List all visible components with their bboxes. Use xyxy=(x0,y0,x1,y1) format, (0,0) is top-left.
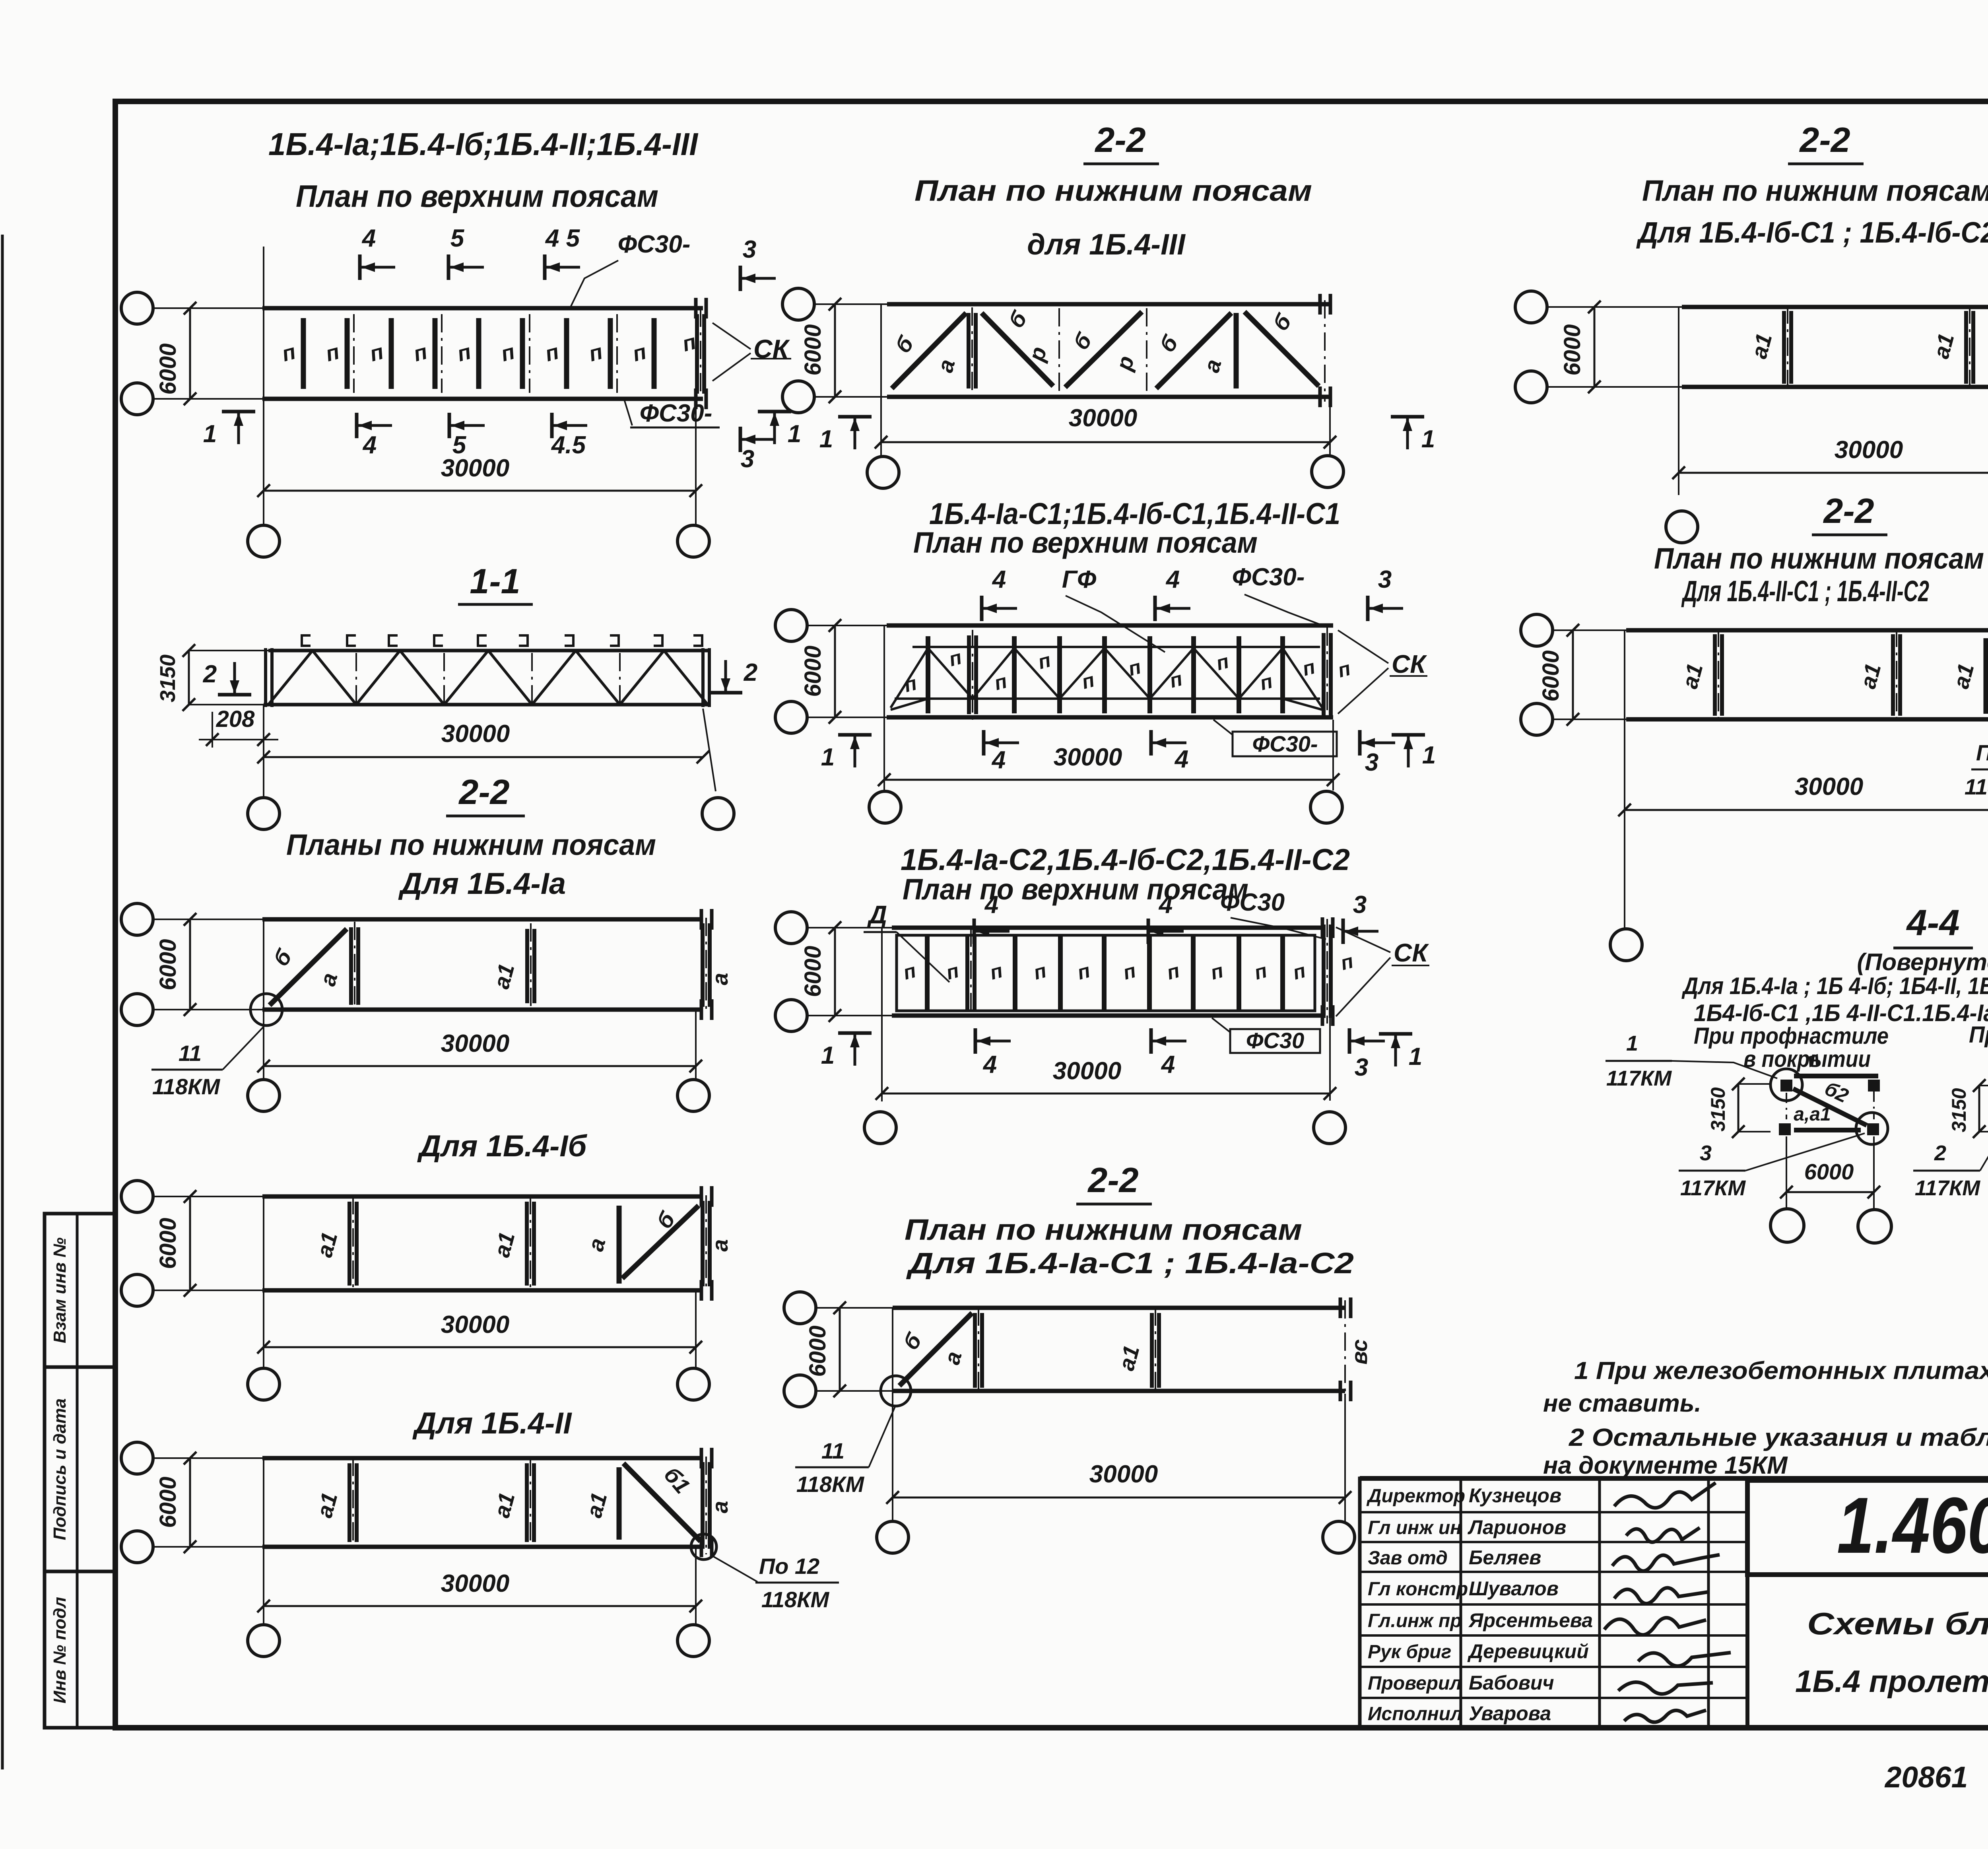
detail 4-4b dim 3150 xyxy=(1979,1085,1988,1086)
diagram A end ticks right xyxy=(694,298,698,319)
diagram C bars a xyxy=(349,927,353,1005)
svg-text:11: 11 xyxy=(179,1041,202,1066)
svg-text:3: 3 xyxy=(1355,1054,1368,1081)
diagram A dim 6000 xyxy=(189,308,191,399)
svg-text:1: 1 xyxy=(1421,425,1435,453)
scan edge artifact line xyxy=(1,235,4,1769)
svg-text:ФС30-: ФС30- xyxy=(640,400,712,427)
svg-text:Для 1Б.4-Iа-С1 ; 1Б.4-Iа-С2: Для 1Б.4-Iа-С1 ; 1Б.4-Iа-С2 xyxy=(906,1247,1354,1280)
diagram I chords xyxy=(893,1306,1345,1310)
diagram H outer chords xyxy=(892,926,1324,930)
detail 4-4a dashed axis left xyxy=(1786,1093,1787,1119)
diagram H slab bars xyxy=(925,935,930,1011)
svg-text:3: 3 xyxy=(741,445,754,473)
svg-text:Для 1Б.4-Iб: Для 1Б.4-Iб xyxy=(417,1129,588,1163)
diagram G top section marks xyxy=(980,596,984,621)
svg-text:117КМ: 117КМ xyxy=(1680,1176,1746,1200)
svg-text:208: 208 xyxy=(216,706,255,732)
svg-text:117КМ: 117КМ xyxy=(1915,1176,1980,1200)
svg-text:а: а xyxy=(707,1239,732,1251)
diagram I grid circles left xyxy=(784,1292,816,1324)
detail 4-4a purlin bar xyxy=(1794,1074,1878,1078)
svg-text:План по верхним поясам: План по верхним поясам xyxy=(296,179,658,214)
svg-text:30000: 30000 xyxy=(1054,744,1122,771)
svg-text:Бабович: Бабович xyxy=(1469,1672,1554,1694)
svg-text:6000: 6000 xyxy=(155,1476,181,1528)
svg-text:118КМ: 118КМ xyxy=(152,1074,221,1099)
svg-text:Для 1Б.4-Iб-С1 ; 1Б.4-Iб-С2: Для 1Б.4-Iб-С1 ; 1Б.4-Iб-С2 xyxy=(1636,216,1988,249)
diagram E brace b1 xyxy=(623,1463,701,1541)
detail 4-4a top-right square xyxy=(1868,1080,1880,1092)
diagram H top section marks xyxy=(973,919,976,944)
svg-text:117КМ: 117КМ xyxy=(1606,1066,1672,1090)
svg-text:1: 1 xyxy=(1409,1043,1422,1070)
svg-text:30000: 30000 xyxy=(1089,1461,1158,1488)
svg-text:не ставить.: не ставить. xyxy=(1543,1390,1701,1417)
svg-text:Для 1Б.4-II: Для 1Б.4-II xyxy=(412,1406,572,1440)
svg-text:2-2: 2-2 xyxy=(1823,491,1874,530)
svg-text:Для 1Б.4-Iа: Для 1Б.4-Iа xyxy=(398,867,566,901)
svg-text:Ярсентьева: Ярсентьева xyxy=(1468,1609,1593,1631)
section mark 2 right xyxy=(709,691,742,695)
diagram K bottom circles xyxy=(1610,929,1642,961)
diagram H slab inner rect xyxy=(897,935,1315,1011)
svg-text:4: 4 xyxy=(1174,746,1188,773)
dim 30000 of 1-1 xyxy=(264,756,703,758)
diagram K bar a1 #3 xyxy=(1984,638,1988,714)
diagram A grid circles left xyxy=(121,292,153,324)
diagram C frame xyxy=(121,903,153,935)
svg-text:ФС30: ФС30 xyxy=(1220,889,1285,916)
svg-text:3: 3 xyxy=(743,236,756,263)
svg-text:3150: 3150 xyxy=(1707,1087,1729,1131)
diagram F grid circles left xyxy=(782,288,814,320)
diagram J grid circles left xyxy=(1515,291,1547,323)
diagram A bottom chord xyxy=(262,397,703,401)
svg-text:Инв № подл: Инв № подл xyxy=(50,1597,70,1703)
svg-text:30000: 30000 xyxy=(441,454,509,482)
svg-text:План по нижним поясам: План по нижним поясам xyxy=(905,1213,1302,1246)
svg-text:4: 4 xyxy=(362,431,377,459)
svg-text:ГФ: ГФ xyxy=(1062,566,1097,593)
diagram C brace b xyxy=(270,929,347,1005)
diagram A section marks bottom xyxy=(355,413,359,438)
svg-text:30000: 30000 xyxy=(1835,436,1903,464)
diagram F section mark 1 right xyxy=(1391,415,1424,419)
svg-text:При ж б плитах: При ж б плитах xyxy=(1969,1022,1988,1048)
diagram F right end xyxy=(1324,300,1326,402)
svg-text:(Повернуто): (Повернуто) xyxy=(1857,949,1988,975)
svg-text:2-2: 2-2 xyxy=(1799,120,1850,159)
svg-text:3: 3 xyxy=(1365,749,1378,776)
svg-text:1-1: 1-1 xyxy=(470,561,520,601)
svg-text:Подпись и дата: Подпись и дата xyxy=(50,1398,70,1540)
diagram D frame xyxy=(121,1181,153,1212)
diagram H FS30 box xyxy=(1230,1029,1320,1053)
diagram G dim 6000 xyxy=(834,625,836,717)
svg-text:30000: 30000 xyxy=(1069,404,1137,432)
diagram H grid circles left xyxy=(775,912,807,944)
svg-text:6000: 6000 xyxy=(1559,324,1585,375)
diagram E frame xyxy=(121,1442,153,1474)
svg-text:1Б4-Iб-С1 ,1Б 4-II-С1.1Б.4-Iа-: 1Б4-Iб-С1 ,1Б 4-II-С1.1Б.4-Iа-С2,1Б 4-Iб… xyxy=(1694,1000,1988,1026)
svg-text:30000: 30000 xyxy=(441,1030,509,1057)
svg-text:вс: вс xyxy=(1347,1339,1372,1365)
svg-text:6000: 6000 xyxy=(800,946,826,997)
diagram G FS30 box xyxy=(1233,732,1337,756)
diagram A grid lines left xyxy=(154,307,262,309)
svg-text:118КМ: 118КМ xyxy=(761,1587,830,1612)
diagram E bars a1 #2 xyxy=(525,1463,529,1542)
detail 4-4a bottom squares and bar xyxy=(1779,1123,1791,1135)
svg-text:4: 4 xyxy=(1161,1051,1175,1078)
svg-text:1: 1 xyxy=(821,1042,835,1069)
diagram D right end bars xyxy=(701,1201,705,1286)
svg-text:Схемы блоков: Схемы блоков xyxy=(1807,1606,1988,1641)
diagram I bars a1 xyxy=(1150,1313,1154,1388)
svg-text:Для 1Б.4-Iа ; 1Б 4-Iб; 1Б4-II,: Для 1Б.4-Iа ; 1Б 4-Iб; 1Б4-II, 1Б 4-Iа-С… xyxy=(1681,973,1988,999)
svg-text:ФС30-: ФС30- xyxy=(1252,731,1318,756)
svg-text:3: 3 xyxy=(1378,566,1392,593)
svg-text:4: 4 xyxy=(992,566,1006,593)
diagram J bars a1 #2 xyxy=(1964,311,1968,384)
svg-text:30000: 30000 xyxy=(1795,773,1863,800)
diagram D bars a1 #1 xyxy=(348,1202,351,1286)
diagram A dim 30000 xyxy=(695,402,697,497)
diagram A section mark 1 bottom right xyxy=(758,410,791,414)
svg-text:3150: 3150 xyxy=(156,655,180,702)
svg-text:2: 2 xyxy=(1934,1141,1946,1165)
svg-text:1 При железобетонных плитах: 1 При железобетонных плитах в покрытии п… xyxy=(1574,1357,1988,1385)
diagram A top chord xyxy=(262,306,703,311)
diagram H right end bars xyxy=(1322,924,1326,1018)
diagram K bars a1 #2 xyxy=(1891,634,1895,716)
svg-text:1Б.4 пролетом 30м: 1Б.4 пролетом 30м xyxy=(1795,1664,1988,1699)
diagram I dim 30000 xyxy=(1344,1394,1346,1521)
svg-text:ФС30: ФС30 xyxy=(1246,1028,1304,1053)
svg-text:4 5: 4 5 xyxy=(545,225,580,252)
truss 1-1 zigzag diagonals xyxy=(268,651,313,705)
svg-text:3150: 3150 xyxy=(1948,1088,1970,1132)
diagram G grid circles left xyxy=(775,610,807,641)
diagram G bottom section marks xyxy=(982,730,986,756)
svg-text:6000: 6000 xyxy=(805,1325,831,1377)
truss 1-1 end posts xyxy=(264,648,267,707)
diagram K dim 6000 xyxy=(1572,630,1574,719)
svg-text:План по нижним поясам: План по нижним поясам xyxy=(1642,174,1988,207)
title block outer xyxy=(1360,1476,1988,1481)
diagram A bottom grid circles xyxy=(263,497,264,525)
signature table rows xyxy=(1360,1511,1747,1513)
svg-text:1Б.4-Iа;1Б.4-Iб;1Б.4-II;1Б.4-I: 1Б.4-Iа;1Б.4-Iб;1Б.4-II;1Б.4-III xyxy=(268,126,699,162)
diagram I bars a xyxy=(973,1313,977,1388)
truss 1-1 dash-dot verticals xyxy=(355,653,357,703)
svg-text:Деревицкий: Деревицкий xyxy=(1467,1640,1589,1663)
svg-text:Взам инв №: Взам инв № xyxy=(50,1237,70,1343)
diagram G bottom circles xyxy=(883,780,885,790)
svg-text:1: 1 xyxy=(1422,742,1436,769)
diagram G dim 30000 xyxy=(1332,720,1334,787)
svg-text:20861: 20861 xyxy=(1884,1760,1968,1794)
diagram D brace b xyxy=(622,1206,699,1278)
diagram E bars a1 #1 xyxy=(348,1463,351,1542)
svg-text:Гл инж ин: Гл инж ин xyxy=(1368,1517,1462,1538)
document number box xyxy=(1747,1480,1988,1575)
svg-text:СК: СК xyxy=(1392,650,1427,678)
svg-text:118КМ: 118КМ xyxy=(796,1472,865,1497)
svg-text:а: а xyxy=(707,973,732,985)
detail 4-4a dim 3150 xyxy=(1738,1083,1771,1085)
diagram A right end bars xyxy=(695,314,699,394)
svg-text:1: 1 xyxy=(1626,1031,1638,1055)
diagram J chords xyxy=(1682,305,1988,309)
svg-text:2 Остальные указания и таб: 2 Остальные указания и таблица элементов… xyxy=(1569,1424,1988,1451)
diagram G posts xyxy=(926,636,930,713)
signature table columns xyxy=(1460,1478,1462,1728)
svg-text:6000: 6000 xyxy=(800,324,826,375)
svg-text:6000: 6000 xyxy=(155,1218,181,1269)
svg-text:2: 2 xyxy=(744,659,757,686)
svg-text:6000: 6000 xyxy=(1804,1159,1854,1184)
diagram H dim 6000 xyxy=(834,928,836,1016)
diagram K bars a1 #1 xyxy=(1713,634,1717,716)
svg-text:Исполнил: Исполнил xyxy=(1368,1703,1462,1725)
svg-text:30000: 30000 xyxy=(441,1570,509,1597)
diagram F chords xyxy=(887,302,1330,307)
diagram I right end xyxy=(1344,1300,1346,1399)
svg-text:а,а1: а,а1 xyxy=(1794,1104,1831,1125)
diagram J bottom circles xyxy=(1666,511,1698,543)
diagram K chords xyxy=(1626,628,1988,633)
diagram F dim 6000 xyxy=(834,304,836,397)
svg-text:4: 4 xyxy=(361,225,376,252)
svg-text:6000: 6000 xyxy=(800,645,826,697)
svg-text:а: а xyxy=(707,1501,732,1513)
diagram C node circle left xyxy=(250,994,282,1025)
svg-text:6000: 6000 xyxy=(1538,650,1564,701)
diagram A section marks top xyxy=(358,254,362,280)
svg-text:2-2: 2-2 xyxy=(1094,120,1145,159)
svg-text:4-4: 4-4 xyxy=(1906,903,1960,943)
diagram A section mark 3 bottom right xyxy=(739,427,742,452)
diagram I bottom circles xyxy=(877,1521,909,1553)
svg-text:Зав отд: Зав отд xyxy=(1368,1548,1448,1569)
svg-text:При профнастиле: При профнастиле xyxy=(1694,1023,1889,1049)
svg-text:1Б.4-Iа-С2,1Б.4-Iб-С2,1Б.4-II-: 1Б.4-Iа-С2,1Б.4-Iб-С2,1Б.4-II-С2 xyxy=(901,843,1350,877)
detail 4-4a brace b2 xyxy=(1793,1089,1867,1125)
diagram A column axis left xyxy=(263,247,264,497)
svg-text:Шувалов: Шувалов xyxy=(1469,1577,1559,1600)
svg-text:для 1Б.4-III: для 1Б.4-III xyxy=(1027,228,1186,261)
svg-text:План по верхним поясам: План по верхним поясам xyxy=(913,526,1258,559)
svg-text:План по нижним поясам: План по нижним поясам xyxy=(914,174,1312,207)
detail 4-4a node circle bottom right xyxy=(1856,1113,1888,1144)
diagram D bar a xyxy=(617,1206,622,1284)
svg-text:Уварова: Уварова xyxy=(1469,1702,1551,1725)
svg-text:11: 11 xyxy=(821,1438,845,1463)
section mark 2 left xyxy=(218,693,251,697)
diagram I dim 6000 xyxy=(839,1308,841,1391)
svg-text:4.5: 4.5 xyxy=(551,431,586,459)
diagram F bottom circles xyxy=(880,442,882,456)
svg-text:3: 3 xyxy=(1700,1141,1712,1165)
detail 4-4a dim 6000 xyxy=(1786,1136,1787,1209)
diagram F dim 30000 xyxy=(1329,400,1331,449)
svg-text:Планы по нижним поясам: Планы по нижним поясам xyxy=(286,828,656,861)
svg-text:30000: 30000 xyxy=(441,1311,509,1338)
diagram J dim 6000 xyxy=(1594,307,1596,387)
diagram A section mark 3 top right xyxy=(739,266,742,291)
svg-text:Директор: Директор xyxy=(1366,1486,1465,1507)
svg-text:5: 5 xyxy=(450,225,465,252)
svg-text:Проверил: Проверил xyxy=(1368,1673,1462,1694)
diagram K grid circles left xyxy=(1521,614,1553,646)
svg-text:1: 1 xyxy=(203,420,217,448)
signature scribbles xyxy=(1614,1483,1716,1508)
diagram G zigzag lacing xyxy=(891,648,1322,708)
diagram C right end bars xyxy=(701,923,705,1007)
diagram C bars a1 xyxy=(525,929,529,1003)
svg-text:Ларионов: Ларионов xyxy=(1468,1516,1566,1538)
svg-text:1: 1 xyxy=(788,420,801,448)
svg-text:Беляев: Беляев xyxy=(1469,1546,1541,1569)
svg-text:4: 4 xyxy=(984,891,998,919)
diagram A section mark 1 bottom left xyxy=(222,410,255,414)
svg-text:Кузнецов: Кузнецов xyxy=(1469,1484,1561,1507)
diagram H dim 30000 xyxy=(1329,1018,1331,1101)
diagram E node circle right xyxy=(691,1534,716,1560)
svg-text:Гл.инж пр: Гл.инж пр xyxy=(1368,1610,1462,1631)
diagram F section mark 1 left xyxy=(838,415,872,419)
svg-text:Рук бриг: Рук бриг xyxy=(1368,1641,1451,1663)
svg-text:6000: 6000 xyxy=(155,939,181,990)
diagram G inner chord lines xyxy=(912,646,1320,648)
svg-text:30000: 30000 xyxy=(1053,1057,1121,1085)
svg-text:2-2: 2-2 xyxy=(1087,1160,1138,1200)
diagram D bars a1 #2 xyxy=(525,1202,529,1286)
svg-text:ФС30-: ФС30- xyxy=(618,231,691,258)
svg-text:2: 2 xyxy=(203,660,217,688)
svg-text:4: 4 xyxy=(982,1051,997,1078)
diagram I brace b xyxy=(899,1313,972,1386)
grid circles below 1-1 xyxy=(263,757,264,797)
svg-text:4: 4 xyxy=(1158,891,1173,919)
svg-text:30000: 30000 xyxy=(441,720,510,748)
svg-text:Для 1Б.4-II-С1 ; 1Б.4-II-С2: Для 1Б.4-II-С1 ; 1Б.4-II-С2 xyxy=(1681,575,1929,608)
diagram H bottom circles xyxy=(864,1112,896,1144)
diagram E right end bars xyxy=(701,1462,705,1549)
diagram I node circle xyxy=(881,1376,911,1406)
svg-text:План по верхним поясам: План по верхним поясам xyxy=(903,873,1248,906)
diagram J bars a1 #1 xyxy=(1782,311,1786,384)
diagram H bottom section marks xyxy=(974,1028,977,1054)
truss 1-1 bottom chord xyxy=(264,703,709,707)
svg-text:на документе 15КМ: на документе 15КМ xyxy=(1543,1452,1788,1479)
detail 4-4a node circle top xyxy=(1771,1069,1802,1101)
svg-text:План по нижним поясам: План по нижним поясам xyxy=(1654,542,1984,575)
svg-text:4: 4 xyxy=(991,746,1006,774)
column axis lines 1-1 xyxy=(263,705,264,761)
svg-text:1: 1 xyxy=(819,425,833,453)
diagram E bar a1 #3 xyxy=(617,1467,622,1540)
svg-text:6000: 6000 xyxy=(155,343,181,394)
diagram G chords xyxy=(887,623,1333,628)
truss 1-1 top chord xyxy=(268,649,709,653)
title cell Schemes xyxy=(1747,1575,1988,1728)
detail 4-4a grid circles xyxy=(1771,1209,1804,1242)
svg-text:1.460.3-19-13 КМ: 1.460.3-19-13 КМ xyxy=(1837,1481,1988,1570)
svg-text:По 12: По 12 xyxy=(759,1554,819,1579)
diagram A purlin bars xyxy=(301,318,306,389)
diagram E leader Po12/118KM xyxy=(712,1556,757,1582)
svg-text:1: 1 xyxy=(821,744,835,771)
svg-text:Д: Д xyxy=(867,900,887,929)
svg-text:Гл констр: Гл констр xyxy=(1368,1579,1468,1600)
svg-text:По 12: По 12 xyxy=(1976,740,1988,765)
svg-text:3: 3 xyxy=(1353,891,1367,919)
svg-text:2-2: 2-2 xyxy=(458,772,509,812)
truss 1-1 purlin clips xyxy=(302,635,311,646)
dim 3150 xyxy=(189,650,268,651)
svg-text:СК: СК xyxy=(1394,938,1429,967)
svg-text:ФС30-: ФС30- xyxy=(1232,563,1305,591)
svg-text:4: 4 xyxy=(1165,566,1180,593)
left margin stamp boxes xyxy=(45,1214,115,1728)
diagram F braces xyxy=(892,313,966,388)
svg-text:118КМ: 118КМ xyxy=(1965,774,1988,799)
